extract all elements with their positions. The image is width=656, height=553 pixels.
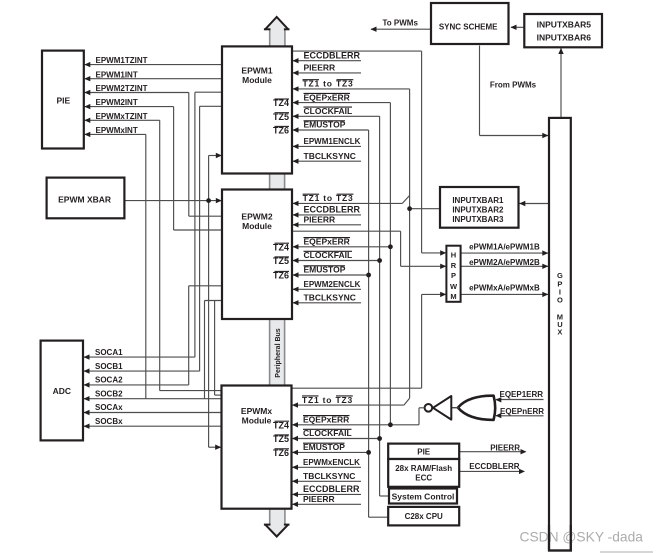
gray bus connector EPWM1-EPWM2: [270, 172, 285, 191]
svg-text:EPWM XBAR: EPWM XBAR: [58, 195, 111, 205]
28x RAM/Flash ECC block: [388, 459, 459, 487]
INPUTXBAR1/2/3 block: [440, 187, 519, 228]
bus EQEPxERR vertical: [389, 103, 391, 425]
label TBCLKSYNC EPWM1: [293, 160, 361, 162]
svg-text:From PWMs: From PWMs: [490, 81, 537, 90]
wire EPWM1INT: [85, 78, 222, 80]
label TZ1-TZ3 EPWM1: [293, 88, 410, 90]
svg-text:R: R: [451, 261, 457, 270]
svg-text:ePWM1A/ePWM1B: ePWM1A/ePWM1B: [469, 243, 540, 252]
svg-text:TBCLKSYNC: TBCLKSYNC: [304, 293, 356, 303]
ADC block: [41, 341, 83, 441]
svg-text:ECCDBLERR: ECCDBLERR: [303, 484, 360, 494]
svg-text:ECCDBLERR: ECCDBLERR: [469, 462, 519, 471]
wire EPWMxINT: [85, 133, 146, 135]
svg-text:EPWM1TZINT: EPWM1TZINT: [96, 56, 148, 65]
wire EPWM1TZINT: [85, 64, 222, 66]
svg-text:Module: Module: [242, 221, 272, 231]
junction EQEPxERR EPWM2: [388, 244, 393, 249]
bus CLOCKFAIL vertical: [379, 116, 381, 496]
svg-text:28x RAM/Flash: 28x RAM/Flash: [395, 464, 452, 473]
svg-text:SOCA1: SOCA1: [95, 348, 123, 357]
svg-text:EPWM2ENCLK: EPWM2ENCLK: [304, 280, 361, 289]
label EPWMxENCLK: [293, 466, 362, 468]
label EMUSTOP EPWM1: [293, 129, 369, 131]
label EMUSTOP EPWM2: [293, 274, 369, 276]
svg-text:TZ6: TZ6: [273, 448, 289, 458]
bus TZ1-TZ3 vertical: [409, 89, 411, 398]
wire inverter output: [419, 407, 425, 409]
svg-text:EPWMxENCLK: EPWMxENCLK: [303, 458, 360, 467]
svg-text:SOCB2: SOCB2: [95, 389, 123, 398]
svg-text:TBCLKSYNC: TBCLKSYNC: [303, 471, 355, 481]
svg-text:EPWM1INT: EPWM1INT: [96, 70, 138, 79]
svg-text:PIEERR: PIEERR: [304, 215, 336, 225]
wire ePWM1A/ePWM1B: [461, 252, 548, 254]
svg-text:EPWM2INT: EPWM2INT: [96, 98, 138, 107]
wire GPIO to INPUTXBAR1/2/3: [520, 203, 550, 205]
label ECCDBLERR EPWMx: [293, 493, 362, 495]
label PIEERR EPWM2: [293, 224, 361, 226]
svg-text:ECCDBLERR: ECCDBLERR: [304, 205, 361, 215]
svg-text:INPUTXBAR5: INPUTXBAR5: [537, 20, 592, 30]
svg-text:INPUTXBAR2: INPUTXBAR2: [452, 206, 504, 215]
svg-text:SOCB1: SOCB1: [95, 362, 123, 371]
wire module sync link: [214, 301, 216, 396]
wire SOCA2: [84, 384, 189, 386]
wire ePWM2A/ePWM2B: [461, 265, 548, 267]
wire To PWMs: [371, 28, 431, 30]
label CLOCKFAIL EPWMx: [293, 438, 381, 440]
wire SOCA1: [84, 356, 195, 358]
junction EQEPxERR EPWMx: [388, 422, 393, 427]
label EQEPxERR EPWMx: [293, 424, 420, 426]
svg-text:X: X: [557, 328, 562, 337]
svg-text:C28x CPU: C28x CPU: [405, 512, 443, 521]
label PIEERR EPWMx: [293, 503, 362, 505]
GPIO MUX block: [549, 118, 571, 551]
svg-text:EQEPnERR: EQEPnERR: [500, 407, 544, 416]
svg-text:INPUTXBAR1: INPUTXBAR1: [452, 196, 504, 205]
svg-text:O: O: [557, 295, 563, 304]
label EQEPxERR EPWM1: [293, 102, 390, 104]
wire EPWM2TZINT: [85, 92, 189, 94]
bus ePWM2 output: [292, 230, 401, 232]
PIE bottom block: [388, 444, 459, 459]
peripheral bus bottom block arrow: [265, 509, 288, 537]
junction EMUSTOP EPWMx: [366, 450, 371, 455]
svg-text:CSDN @SKY -dada: CSDN @SKY -dada: [520, 530, 644, 545]
wire SOCBx: [84, 425, 222, 427]
wire PIEERR out: [459, 451, 524, 453]
svg-text:ePWM2A/ePWM2B: ePWM2A/ePWM2B: [469, 258, 540, 267]
svg-text:P: P: [451, 271, 456, 280]
svg-text:TZ5: TZ5: [273, 434, 289, 444]
bus ePWMx output: [292, 387, 422, 389]
junction TZ bus: [407, 206, 412, 211]
svg-text:TZ6: TZ6: [273, 126, 289, 136]
label EQEPxERR EPWM2: [293, 246, 390, 248]
svg-text:ADC: ADC: [53, 386, 71, 396]
wire SYNC to GPIO: [479, 46, 481, 136]
PIE block: [42, 51, 84, 149]
bus EMUSTOP vertical: [368, 130, 370, 517]
svg-text:TZ5: TZ5: [273, 112, 289, 122]
label EMUSTOP EPWMx: [293, 451, 370, 453]
C28x CPU block: [388, 507, 459, 526]
junction CLOCKFAIL EPWM2: [377, 258, 382, 263]
svg-text:TZ6: TZ6: [273, 271, 289, 281]
label EPWM2ENCLK: [293, 288, 361, 290]
svg-text:PIEERR: PIEERR: [490, 443, 520, 452]
label TZ1-TZ3 EPWMx: [293, 404, 404, 406]
svg-text:EPWM1ENCLK: EPWM1ENCLK: [304, 137, 361, 146]
svg-text:PIE: PIE: [56, 95, 70, 105]
label PIEERR EPWM1: [293, 72, 361, 74]
label TBCLKSYNC EPWM2: [293, 302, 361, 304]
peripheral bus gray bar: [270, 318, 285, 387]
wire EPWMxTZINT: [85, 119, 160, 121]
junction CLOCKFAIL EPWMx: [377, 436, 382, 441]
wire EQEP1ERR: [496, 399, 544, 401]
wire EQEPnERR: [496, 415, 544, 417]
wire SOCAx: [84, 412, 222, 414]
label TZ1-TZ3 EPWM2: [293, 202, 402, 204]
wire ePWMxA/ePWMxB: [461, 293, 548, 295]
EPWM2 module block: [222, 190, 292, 320]
peripheral bus top block arrow: [265, 17, 288, 46]
svg-text:System Control: System Control: [392, 491, 455, 501]
bus ePWM1 output: [292, 50, 422, 52]
wire INPUTXBAR1/2/3 output: [410, 208, 440, 210]
svg-text:TZ4: TZ4: [273, 98, 289, 108]
svg-text:SOCBx: SOCBx: [95, 417, 123, 426]
junction EMUSTOP EPWM2: [366, 273, 371, 278]
inverter U2: [451, 407, 458, 409]
wire EPWM XBAR to modules: [124, 200, 222, 202]
System Control block: [389, 489, 457, 504]
EPWMx module block: [222, 386, 292, 509]
label CLOCKFAIL EPWM2: [293, 260, 380, 262]
junction EPWM XBAR: [206, 198, 211, 203]
svg-text:PIEERR: PIEERR: [303, 494, 335, 504]
svg-text:M: M: [450, 292, 456, 301]
HRPWM block: [446, 246, 460, 302]
svg-text:TBCLKSYNC: TBCLKSYNC: [304, 151, 356, 161]
svg-text:ECC: ECC: [415, 474, 432, 483]
EPWM1 module block: [222, 46, 292, 173]
EPWM XBAR block: [47, 178, 125, 219]
wire SOCB2: [84, 398, 222, 400]
label TBCLKSYNC EPWMx: [293, 480, 362, 482]
svg-text:Peripheral Bus: Peripheral Bus: [275, 328, 282, 378]
wire INPUTXBAR5/6 to SYNC: [511, 26, 525, 28]
svg-text:W: W: [450, 282, 458, 291]
svg-text:PIE: PIE: [417, 447, 431, 456]
svg-text:EPWM2TZINT: EPWM2TZINT: [96, 84, 148, 93]
label ECCDBLERR EPWM1: [293, 60, 361, 62]
svg-text:H: H: [451, 250, 456, 259]
svg-text:ePWMxA/ePWMxB: ePWMxA/ePWMxB: [469, 284, 540, 293]
svg-text:INPUTXBAR3: INPUTXBAR3: [452, 215, 504, 224]
wire SOCB1: [84, 370, 200, 372]
wire ECCDBLERR out: [459, 470, 522, 472]
svg-text:EPWMxTZINT: EPWMxTZINT: [96, 112, 148, 121]
wire EPWM2INT: [85, 106, 174, 108]
svg-text:TZ4: TZ4: [273, 242, 289, 252]
svg-text:TZ5: TZ5: [273, 256, 289, 266]
label CLOCKFAIL EPWM1: [293, 115, 380, 117]
svg-text:Module: Module: [242, 415, 272, 425]
svg-text:PIEERR: PIEERR: [304, 63, 336, 73]
svg-text:EQEP1ERR: EQEP1ERR: [500, 390, 544, 399]
SYNC SCHEME block: [431, 3, 509, 44]
svg-text:INPUTXBAR6: INPUTXBAR6: [537, 32, 592, 42]
label EPWM1ENCLK: [293, 145, 361, 147]
wire GPIO to INPUTXBAR5/6: [560, 48, 562, 118]
INPUTXBAR5/6 block: [524, 14, 602, 47]
svg-text:Module: Module: [242, 75, 272, 85]
svg-text:ECCDBLERR: ECCDBLERR: [304, 50, 361, 60]
or-gate U1: [458, 396, 495, 420]
svg-text:To PWMs: To PWMs: [383, 18, 419, 27]
svg-text:SOCA2: SOCA2: [95, 376, 123, 385]
svg-text:SYNC SCHEME: SYNC SCHEME: [439, 23, 498, 32]
svg-text:EPWMxINT: EPWMxINT: [96, 126, 138, 135]
label ECCDBLERR EPWM2: [293, 214, 361, 216]
svg-text:TZ4: TZ4: [273, 420, 289, 430]
svg-text:SOCAx: SOCAx: [95, 403, 123, 412]
